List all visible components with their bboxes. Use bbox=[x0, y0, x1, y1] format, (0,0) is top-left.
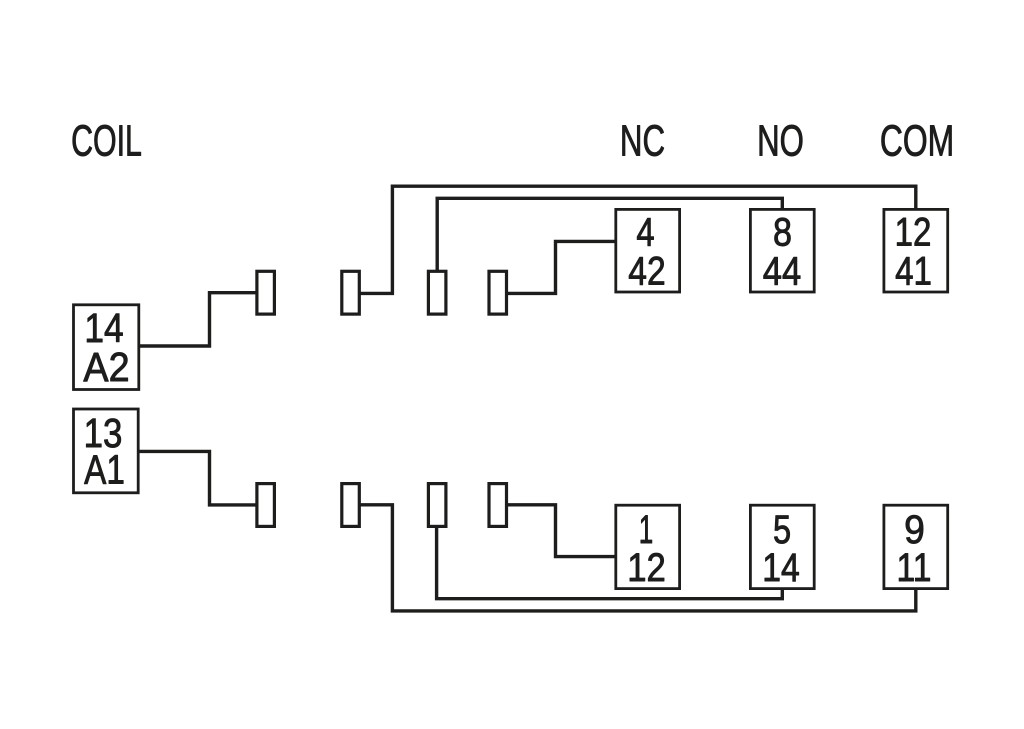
coil terminal box 13/A1 bbox=[74, 409, 139, 493]
contact box 9/11 bbox=[884, 505, 948, 588]
svg-text:COM: COM bbox=[880, 117, 954, 166]
svg-text:A1: A1 bbox=[84, 446, 125, 492]
contact pin lower pole COM column bbox=[342, 484, 360, 527]
contact box 8/44 bbox=[750, 209, 814, 292]
contact box 12/41 bbox=[884, 209, 948, 292]
svg-text:11: 11 bbox=[897, 546, 932, 590]
coil terminal box 14/A2 bbox=[74, 305, 139, 390]
contact pin upper pole NO column bbox=[428, 271, 446, 314]
svg-text:44: 44 bbox=[763, 248, 801, 293]
contact pin upper pole NC column bbox=[489, 271, 507, 314]
contact box 5/14 bbox=[750, 505, 814, 588]
wire lower pole NO to box 5/14 bbox=[437, 526, 783, 599]
contact box 4/42 bbox=[616, 209, 680, 292]
contact pin upper pole COM column bbox=[342, 271, 360, 314]
coil contact pin upper bbox=[257, 271, 275, 314]
wire lower pole NC to box 1/12 bbox=[507, 505, 616, 557]
svg-text:42: 42 bbox=[628, 249, 665, 293]
svg-text:COIL: COIL bbox=[71, 117, 142, 166]
svg-text:12: 12 bbox=[627, 545, 666, 590]
svg-text:12: 12 bbox=[895, 210, 932, 255]
wire from 13/A1 to lower coil contact bbox=[138, 451, 257, 505]
contact pin lower pole NO column bbox=[428, 484, 446, 527]
wire upper pole COM to box 12/41 bbox=[359, 186, 916, 293]
wire lower pole COM to box 9/11 bbox=[359, 505, 916, 611]
wire from 14/A2 to upper coil contact bbox=[139, 293, 257, 346]
svg-text:4: 4 bbox=[636, 210, 654, 255]
svg-text:A2: A2 bbox=[83, 345, 129, 391]
wire upper pole NO to box 8/44 bbox=[437, 198, 782, 271]
svg-text:NC: NC bbox=[620, 116, 665, 166]
svg-text:14: 14 bbox=[762, 546, 800, 590]
svg-text:NO: NO bbox=[757, 118, 804, 166]
contact pin lower pole NC column bbox=[489, 484, 507, 527]
svg-text:41: 41 bbox=[895, 249, 932, 294]
coil contact pin lower bbox=[257, 484, 275, 527]
contact box 1/12 bbox=[616, 505, 680, 588]
wire upper pole NC to box 4/42 bbox=[507, 241, 616, 293]
